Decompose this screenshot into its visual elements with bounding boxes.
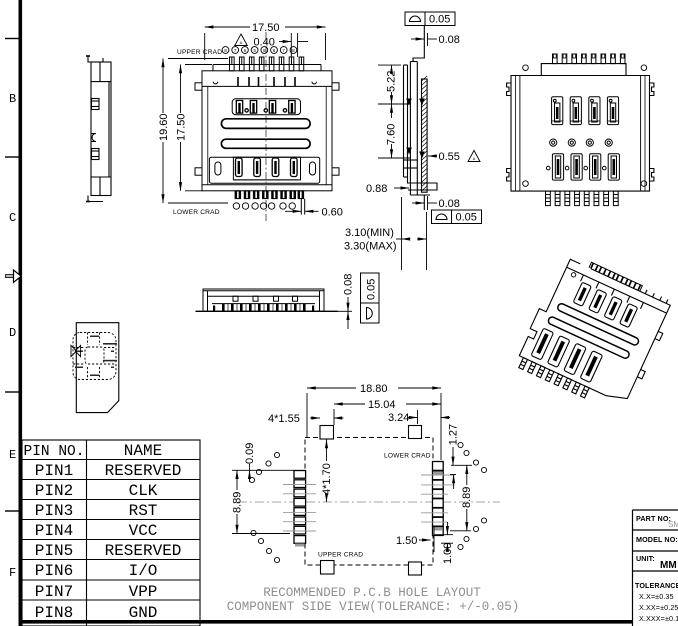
left ear upper [195, 83, 202, 90]
right view middle rivets [550, 139, 613, 146]
svg-text:15.04: 15.04 [368, 399, 396, 411]
right view left edge brackets [507, 83, 511, 96]
svg-text:RESERVED: RESERVED [105, 542, 182, 560]
right view top pins [553, 54, 626, 64]
svg-text:5: 5 [253, 48, 256, 53]
lower contact block [209, 157, 319, 183]
dim 17.50 horizontal [205, 27, 326, 60]
iso long slot 1 [557, 303, 640, 347]
section contact arrows [407, 99, 411, 104]
card slot 1 [221, 119, 310, 129]
side view middle notch [91, 134, 96, 142]
iso lower slots [531, 328, 554, 360]
dim 4*1.55 [310, 417, 344, 419]
iso small top marks [581, 275, 584, 281]
dim 3.24 [408, 410, 450, 424]
dim 15.04 [334, 404, 441, 425]
right view lower slots [546, 154, 619, 180]
dim 0.40 [279, 33, 308, 57]
svg-text:A: A [240, 40, 243, 45]
top tabs row [237, 77, 239, 86]
pcb right pads [433, 462, 444, 536]
dim 1.00 [434, 522, 453, 550]
iso right edge tabs [655, 331, 663, 340]
title block text [635, 514, 678, 623]
svg-text:PIN6: PIN6 [35, 562, 73, 580]
side view hole upper [92, 99, 100, 110]
svg-text:RESERVED: RESERVED [105, 462, 182, 480]
svg-text:VCC: VCC [129, 522, 158, 540]
top pin row [230, 57, 304, 71]
svg-text:5.22: 5.22 [386, 71, 398, 92]
svg-text:3.10(MIN): 3.10(MIN) [345, 227, 394, 239]
dim 4*1.70 [326, 440, 328, 503]
bottom view base line [196, 310, 339, 312]
right view bottom pins [546, 191, 619, 206]
iso upper slots [573, 282, 591, 306]
drawing frame bottom border [19, 620, 633, 624]
side view bottom hook [88, 196, 103, 202]
corner notch circles [213, 82, 218, 84]
svg-text:PIN8: PIN8 [35, 604, 73, 622]
svg-text:VPP: VPP [129, 583, 158, 601]
dim 5.22 [378, 65, 410, 104]
svg-text:1.50: 1.50 [396, 535, 417, 547]
svg-text:0.05: 0.05 [456, 212, 477, 224]
svg-text:E: E [9, 448, 16, 462]
svg-text:4*1.55: 4*1.55 [268, 413, 300, 425]
right view corner holes [523, 65, 529, 71]
drawing frame left border [19, 0, 23, 626]
card slot 2 [221, 139, 310, 148]
dim 0.60 [285, 210, 319, 212]
svg-text:17.50: 17.50 [252, 22, 280, 34]
svg-text:UPPER CRAD: UPPER CRAD [177, 49, 222, 56]
svg-text:PIN5: PIN5 [35, 542, 73, 560]
dim 19.60 vertical [163, 59, 228, 204]
svg-text:8: 8 [224, 48, 227, 53]
dim 1.50 [419, 527, 434, 552]
svg-text:7: 7 [234, 48, 237, 53]
svg-text:4*1.70: 4*1.70 [321, 463, 333, 495]
right ear upper [332, 83, 339, 90]
svg-text:RECOMMENDED P.C.B HOLE LAYOUT: RECOMMENDED P.C.B HOLE LAYOUT [263, 586, 481, 600]
svg-text:8.89: 8.89 [232, 492, 244, 513]
svg-text:3.30(MAX): 3.30(MAX) [344, 241, 397, 253]
zone arrow marker on border [6, 270, 22, 282]
right view outline with tab [511, 64, 650, 192]
svg-text:1.27: 1.27 [448, 424, 460, 445]
svg-text:LOWER CRAD: LOWER CRAD [173, 209, 220, 216]
svg-text:7.60: 7.60 [386, 124, 398, 145]
svg-text:0.88: 0.88 [366, 183, 387, 195]
svg-text:UNIT:: UNIT: [636, 554, 655, 563]
svg-text:0.08: 0.08 [439, 198, 460, 210]
svg-text:6: 6 [273, 48, 276, 53]
side view body [91, 62, 111, 196]
svg-text:SM: SM [668, 520, 678, 529]
dim 8.89 left [232, 470, 290, 533]
svg-text:CLK: CLK [129, 482, 158, 500]
svg-text:PART NO:: PART NO: [636, 514, 671, 523]
svg-text:PIN1: PIN1 [35, 462, 73, 480]
svg-text:X.X=±0.35: X.X=±0.35 [639, 592, 674, 601]
section body [404, 26, 438, 211]
svg-text:1.00: 1.00 [442, 543, 454, 564]
sim card outline [76, 323, 119, 413]
top circled pin numbers [222, 47, 297, 54]
sim tiny pad labels (illegible) [75, 336, 117, 377]
svg-text:0.55: 0.55 [439, 151, 460, 163]
svg-text:8: 8 [292, 48, 295, 53]
svg-text:8.89: 8.89 [461, 487, 473, 508]
dim 0.08 (bottom view) [338, 297, 352, 329]
iso serrated edge [589, 262, 642, 291]
dim 1.27 [450, 447, 472, 489]
title block grid [633, 510, 678, 626]
svg-text:I/O: I/O [129, 562, 158, 580]
svg-text:B: B [9, 92, 16, 106]
svg-text:6: 6 [244, 48, 247, 53]
flatness frame bottom [432, 210, 482, 224]
hatching [422, 76, 428, 191]
iso bottom pins [519, 358, 528, 370]
svg-text:0.05: 0.05 [429, 14, 450, 26]
zone tick marks left margin [5, 39, 19, 512]
pcb outline dashed [305, 438, 433, 566]
svg-text:0.08: 0.08 [439, 34, 460, 46]
svg-text:LOWER CRAD: LOWER CRAD [384, 453, 431, 460]
svg-text:TOLERANCES: TOLERANCES [635, 581, 678, 590]
svg-text:COMPONENT SIDE VIEW(TOLERANCE:: COMPONENT SIDE VIEW(TOLERANCE: +/-0.05) [227, 600, 520, 614]
svg-text:5: 5 [263, 48, 266, 53]
svg-text:0.09: 0.09 [244, 443, 256, 464]
sim contact footprint (dashed) [73, 333, 116, 380]
bottom circled pin numbers [233, 203, 295, 209]
bottom view outline [203, 289, 324, 311]
dim 7.60 [378, 104, 410, 158]
svg-text:MM: MM [660, 560, 677, 571]
svg-text:X.XXX=±0.1: X.XXX=±0.1 [639, 614, 678, 623]
pcb centerline horizontal [238, 501, 500, 503]
sim left edge notch mark [71, 345, 81, 356]
pcb mounting squares [320, 426, 422, 576]
svg-text:0.40: 0.40 [254, 37, 275, 49]
svg-text:NAME: NAME [124, 442, 162, 460]
dim 0.08 (top of section) [411, 33, 437, 46]
centerline vertical [265, 32, 267, 222]
svg-text:A: A [473, 156, 476, 161]
top view body outline [202, 71, 332, 191]
dim 0.55 leader [428, 155, 437, 157]
svg-text:PIN7: PIN7 [35, 583, 73, 601]
svg-text:PIN2: PIN2 [35, 482, 73, 500]
bottom view top tabs [233, 296, 238, 301]
svg-text:D: D [9, 326, 16, 340]
pcb small holes [249, 442, 486, 562]
iso body outline [518, 256, 670, 404]
svg-text:GND: GND [129, 604, 158, 622]
svg-text:UPPER CRAD: UPPER CRAD [318, 552, 363, 559]
svg-text:7: 7 [282, 48, 285, 53]
svg-text:18.80: 18.80 [360, 383, 388, 395]
warning triangle (top view) [235, 34, 248, 46]
bottom view pins [213, 304, 314, 312]
svg-text:RST: RST [129, 502, 158, 520]
dim 8.89 right [450, 465, 471, 531]
flatness frame top [405, 12, 455, 26]
svg-text:C: C [9, 211, 16, 225]
side view hole lower [92, 149, 100, 160]
svg-text:17.50: 17.50 [176, 113, 188, 141]
svg-text:PIN NO.: PIN NO. [24, 444, 85, 460]
pcb left pads [294, 471, 306, 547]
side view top hook [88, 56, 103, 62]
dim 17.50 vertical [181, 65, 213, 191]
warning triangle (section) [468, 151, 480, 162]
upper contact block [232, 99, 300, 115]
svg-text:0.08: 0.08 [343, 274, 355, 295]
svg-text:0.60: 0.60 [322, 207, 343, 219]
dim 18.80 [307, 388, 441, 460]
iso long slot 2 [547, 316, 630, 360]
svg-text:X.XX=±0.25: X.XX=±0.25 [639, 603, 678, 612]
right ear lower [332, 168, 339, 175]
bottom body edge line [202, 184, 332, 186]
dim 3.10(MIN) 3.30(MAX) [396, 197, 427, 270]
svg-text:MODEL NO:: MODEL NO: [636, 535, 678, 544]
right view upper slots [552, 97, 619, 125]
dim 0.09 [232, 464, 294, 482]
svg-text:PIN3: PIN3 [35, 502, 73, 520]
left ear lower [195, 168, 202, 175]
svg-text:19.60: 19.60 [158, 113, 170, 141]
pad leader lines gray [283, 475, 455, 531]
dim 0.08 (bottom of section) [412, 196, 437, 210]
pin table text [24, 442, 182, 622]
zone letters B C D E F [9, 92, 16, 580]
svg-text:3.24: 3.24 [388, 412, 409, 424]
svg-text:F: F [9, 566, 16, 580]
bottom pin row [235, 191, 305, 215]
svg-text:PIN4: PIN4 [35, 522, 73, 540]
hatched wall [422, 79, 428, 192]
flatness frame vertical (bottom view) [361, 273, 380, 323]
right view inner edge lines [519, 76, 521, 192]
pin table grid [22, 440, 200, 626]
svg-text:0.05: 0.05 [366, 279, 378, 300]
